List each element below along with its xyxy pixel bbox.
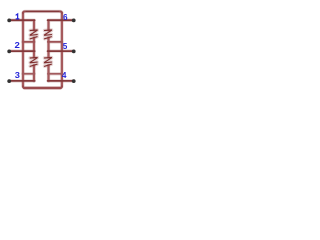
lead left column middle — [33, 38, 35, 58]
box corner arcs — [23, 11, 62, 88]
horizontal strokes: crisper — [9, 11, 74, 88]
pin 6 dot — [72, 18, 76, 22]
pin 3 dot — [7, 79, 11, 83]
resistor zig-zags — [30, 30, 51, 66]
svg-text:3: 3 — [15, 71, 20, 80]
wire pin 6 — [48, 19, 74, 21]
svg-text:4: 4 — [62, 71, 67, 80]
resistor element top-right — [45, 30, 52, 39]
pin 4 dot — [72, 79, 76, 83]
resistor element bottom-left — [30, 57, 37, 66]
svg-text:2: 2 — [15, 41, 20, 50]
body box left edge — [22, 13, 24, 87]
body box bottom edge — [24, 87, 60, 90]
body box top edge — [24, 10, 60, 12]
resistor element bottom-right — [45, 57, 52, 66]
node stub lower left — [23, 73, 34, 75]
pin 5 dot — [72, 50, 76, 54]
lead left column lower — [33, 65, 35, 80]
node stub upper right — [48, 41, 62, 43]
body box right edge — [61, 13, 63, 87]
lead pin6 elbow down — [47, 20, 49, 30]
lead pin1 elbow down — [33, 20, 35, 30]
lead right column lower — [47, 65, 49, 80]
node stub upper left — [23, 41, 34, 43]
wire pin 5 — [48, 50, 74, 52]
svg-text:6: 6 — [63, 13, 68, 22]
pin number 1 — [16, 14, 19, 19]
vertical strokes: softer/lighter — [23, 13, 62, 87]
resistor element top-left — [30, 30, 37, 39]
wire pin 2 — [9, 50, 34, 52]
wire pin 4 — [48, 80, 74, 82]
svg-text:5: 5 — [63, 42, 68, 51]
wire pin 3 — [9, 80, 34, 82]
soft halo of resistor-pack outline and wiring — [9, 11, 74, 88]
pin 1 dot — [7, 18, 11, 22]
lead right column middle — [47, 38, 49, 58]
node stub lower right — [48, 73, 62, 75]
wire pin 1 — [9, 19, 34, 21]
pin 2 dot — [7, 50, 11, 54]
